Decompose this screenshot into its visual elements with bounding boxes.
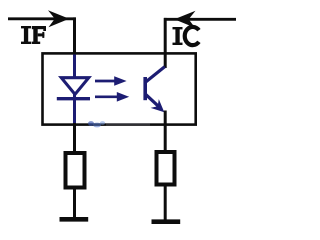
IC current arrow <box>174 11 195 28</box>
wire R1 to ground <box>73 188 76 219</box>
wire right vertical top (collector lead) <box>164 18 167 68</box>
IF current arrow <box>48 10 69 27</box>
phototransistor Q1 emitter arrow <box>151 99 165 112</box>
label IC <box>173 27 199 45</box>
ground right <box>152 219 181 224</box>
wire right vertical (emitter lead) <box>164 111 167 152</box>
LED diode D1 cathode bar <box>57 97 90 100</box>
phototransistor Q1 base bar <box>143 77 147 100</box>
wire IF input horizontal <box>8 17 76 20</box>
wire left vertical below diode <box>73 122 76 152</box>
phototransistor Q1 collector line <box>146 67 165 82</box>
light emission arrow 2 <box>95 95 119 98</box>
watermark <box>88 121 150 127</box>
phototransistor Q1 emitter line <box>146 95 159 107</box>
wire R2 to ground <box>164 184 167 222</box>
resistor R1 body <box>66 153 85 188</box>
ground left <box>60 217 89 222</box>
optocoupler package box U1 <box>43 53 196 124</box>
wire left vertical (anode lead) <box>73 17 76 56</box>
resistor R2 body <box>157 152 175 185</box>
LED diode D1 cathode wire (navy) <box>73 99 76 123</box>
LED diode D1 anode wire (navy) <box>73 55 76 78</box>
label IF <box>21 26 46 44</box>
LED diode D1 apex stub <box>73 94 76 99</box>
light emission arrow 1 <box>95 80 116 83</box>
wire IC input horizontal <box>164 18 236 21</box>
LED diode D1 triangle <box>61 78 88 95</box>
